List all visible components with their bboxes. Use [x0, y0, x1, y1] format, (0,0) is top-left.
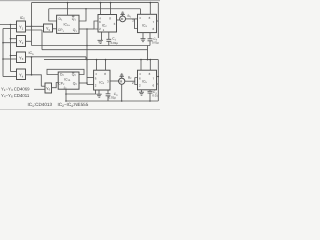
rail2 Qbar1 feedback horizontal: [49, 8, 141, 10]
node junction B2 bottom rail: [121, 100, 123, 102]
svg-text:Y1: Y1: [19, 25, 24, 31]
IC2 555 box: [98, 15, 117, 33]
svg-text:0.01: 0.01: [152, 94, 158, 98]
wire IC5 left bus: [135, 78, 138, 85]
IC4 555 box: [94, 70, 110, 90]
node junction rail59 at 147.5: [147, 59, 149, 61]
node junction Y3 out branch: [31, 56, 33, 58]
node junction Q1 drop rail59: [86, 59, 88, 61]
wire IC4 pin3 stub to B2: [110, 80, 119, 82]
node junction dot Y2 in1: [10, 38, 12, 40]
wire Y6 in2: [34, 88, 45, 90]
ground inverted above B1: [120, 12, 124, 14]
wire branch to Y4 in1: [11, 71, 17, 73]
wire IC2 pin4 stub: [100, 3, 102, 15]
wire rail2 left drop to D1: [49, 9, 57, 21]
svg-text:Q1: Q1: [73, 28, 78, 33]
svg-text:Y3: Y3: [19, 56, 24, 62]
node junction dot Y2 in2: [2, 42, 4, 44]
capacitor C2: [149, 33, 151, 39]
svg-text:M: M: [121, 17, 124, 21]
node junction DFF2 stub bottom rail: [65, 100, 67, 102]
node junction Y1 out riser: [31, 26, 33, 28]
node junction C4 bottom rail: [149, 100, 151, 102]
node junction Q1 drop: [86, 28, 88, 30]
svg-text:D2: D2: [60, 73, 64, 78]
wire Qbar2 feedback loop: [47, 69, 84, 74]
node junction rail59 IC4 pin8: [105, 59, 107, 61]
wire Y3 output rail: [26, 56, 87, 58]
ground under IC3: [142, 33, 144, 39]
wire IC4 pin4 stub: [96, 60, 98, 71]
svg-text:Y4~Y6 CD4011: Y4~Y6 CD4011: [1, 93, 30, 99]
svg-text:Y6: Y6: [46, 86, 51, 92]
wire rail2 right drop to IC3 pin4: [140, 9, 142, 15]
wire Y3 out branch down: [31, 57, 33, 75]
svg-text:Q2: Q2: [73, 82, 78, 87]
wire Y2 output: [26, 40, 32, 42]
wire IC4 pin8 stub: [105, 60, 107, 71]
svg-text:D1: D1: [59, 17, 63, 22]
wire IC2 left bus pins 6-2: [94, 21, 98, 29]
wire B1 top stub: [122, 14, 124, 16]
svg-text:0.01μ: 0.01μ: [109, 96, 117, 100]
wire input A to Y1: [0, 24, 17, 26]
gate Y1: [17, 21, 26, 32]
rail59 horizontal: [44, 59, 158, 61]
figure top border: [0, 0, 160, 2]
wire IC3 right pin stub: [157, 20, 159, 22]
node junction dot Y3 in1: [10, 55, 12, 57]
svg-text:CP1: CP1: [58, 28, 65, 33]
svg-text:IC1:CD4013: IC1:CD4013: [28, 102, 53, 108]
ground under IC2: [101, 32, 103, 40]
wire branch to Y3 in1: [11, 55, 17, 57]
gate Y3: [17, 52, 26, 63]
wire IC3 left bus: [135, 19, 138, 29]
node junction Y4 out line: [31, 74, 33, 76]
node junction Q2 bus: [86, 82, 88, 84]
capacitor C3: [107, 90, 109, 94]
svg-text:Y2: Y2: [19, 39, 24, 45]
wire Qbar1 riser to rail2: [79, 9, 86, 21]
svg-text:0.01μ: 0.01μ: [152, 41, 159, 45]
rail94 horizontal: [66, 90, 96, 94]
wire IC5 pin4 stub: [140, 60, 142, 71]
wire Y3 out drop to rail59: [85, 57, 87, 60]
node junction rail59 IC4 pin4: [96, 59, 98, 61]
mid-rail M2: [42, 49, 148, 51]
wire B2 to IC5 bus: [125, 80, 135, 82]
wire stub to IC4 pin2: [87, 84, 94, 86]
wire DFF1 top stub from rail1: [67, 3, 69, 16]
gate Y2: [17, 36, 26, 47]
mid-rail M1: [32, 45, 151, 47]
svg-text:IC3: IC3: [142, 23, 147, 28]
wire Y1 aux output: [26, 29, 43, 31]
wire Y6 out to CP2: [52, 83, 59, 88]
svg-text:Y5: Y5: [46, 26, 51, 32]
svg-text:Y1~Y3 CD4069: Y1~Y3 CD4069: [1, 86, 30, 92]
wire branch to Y3 in2: [3, 58, 17, 60]
svg-text:0.01μ: 0.01μ: [111, 41, 119, 45]
wire Y6 in1 from Y4 line: [41, 85, 45, 87]
node junction dot Y3 in2: [2, 58, 4, 60]
wire stub to IC4 pin6: [87, 77, 94, 79]
node junction right stub: [158, 76, 160, 78]
wire Y1 output to Y5: [26, 25, 44, 27]
wire B1 to IC3 bus: [126, 18, 138, 20]
svg-text:IC5: IC5: [142, 80, 147, 85]
ground under IC5: [141, 90, 143, 92]
wire input bus X2 vertical: [2, 29, 4, 77]
wire Q2 output to bus: [79, 82, 87, 84]
flip-flop U IC1a box: [57, 15, 79, 33]
svg-text:IC2~IC4:NE555: IC2~IC4:NE555: [58, 102, 89, 108]
svg-text:M: M: [120, 80, 123, 84]
speaker B1: [120, 16, 126, 22]
wire Q1 to IC2 pin2: [79, 28, 94, 30]
flip-flop IC1b box: [58, 72, 79, 89]
wire IC5 right pin stubs: [157, 77, 159, 85]
svg-text:IC2: IC2: [102, 24, 107, 29]
gate Y6: [45, 83, 52, 93]
bottom rail: [66, 100, 158, 102]
wire right edge vertical bottom: [157, 60, 159, 101]
node junction rail59 IC5 pin4: [140, 59, 142, 61]
gate Y4: [17, 69, 26, 80]
node junction rail1 DFF1 stub: [67, 2, 69, 4]
svg-text:CP2: CP2: [58, 82, 65, 87]
wire IC2 pin8 stub: [110, 3, 112, 15]
wire Y5 out to CP1: [53, 28, 57, 30]
wire branch to Y2 in2: [3, 42, 17, 44]
svg-text:IC4: IC4: [99, 80, 104, 85]
wire IC2 pin3 stub to B1: [117, 19, 120, 21]
wire input bus X1 vertical: [10, 25, 12, 72]
node junction Q1 drop mid-rail: [86, 45, 88, 47]
node junction rail2 Qbar riser: [85, 8, 87, 10]
node junction rail59 IC5 pin8: [150, 59, 152, 61]
IC3 555 box: [138, 14, 157, 32]
speaker B2: [119, 78, 125, 84]
wire IC5 pin8 stub: [149, 60, 151, 71]
wire DFF2 bottom stub: [65, 89, 67, 101]
wire Q1 drop vertical to IC4: [86, 29, 88, 85]
gate Y5: [44, 24, 53, 32]
capacitor C4: [149, 90, 151, 92]
wire B2 top stub: [121, 76, 123, 78]
wire B2 bottom drop: [121, 84, 123, 101]
svg-text:IC1a: IC1a: [64, 23, 71, 28]
svg-text:IC1b: IC1b: [64, 78, 71, 83]
node junction DFF2 stub rail94: [65, 93, 67, 95]
ground inverted above B2: [120, 74, 124, 76]
svg-text:Y4: Y4: [19, 73, 24, 79]
node junction rail1 IC3 pin8: [150, 2, 152, 4]
node junction rail1 pin4: [100, 2, 102, 4]
rail1 top horizontal: [32, 2, 159, 4]
wire branch to Y2 in1: [11, 38, 17, 40]
svg-text:Q1: Q1: [72, 17, 77, 22]
figure bottom border: [0, 108, 160, 110]
wire long vertical x42 down to Y6: [41, 30, 43, 50]
capacitor C1: [108, 32, 110, 39]
node junction rail1 pin8: [110, 2, 112, 4]
node A junction dot: [10, 24, 12, 26]
IC5 555 box: [138, 70, 157, 90]
wire branch to Y1 in2: [3, 28, 17, 30]
wire right edge vertical top: [157, 3, 159, 38]
ground under IC4: [98, 90, 100, 94]
wire Y4 output down to Y6: [26, 75, 42, 86]
wire riser x31.5 rail1 to mid-rail: [31, 3, 33, 46]
wire IC3 pin8 stub: [149, 3, 151, 15]
wire branch to Y4 in2: [3, 76, 17, 78]
svg-text:Q2: Q2: [72, 73, 77, 78]
